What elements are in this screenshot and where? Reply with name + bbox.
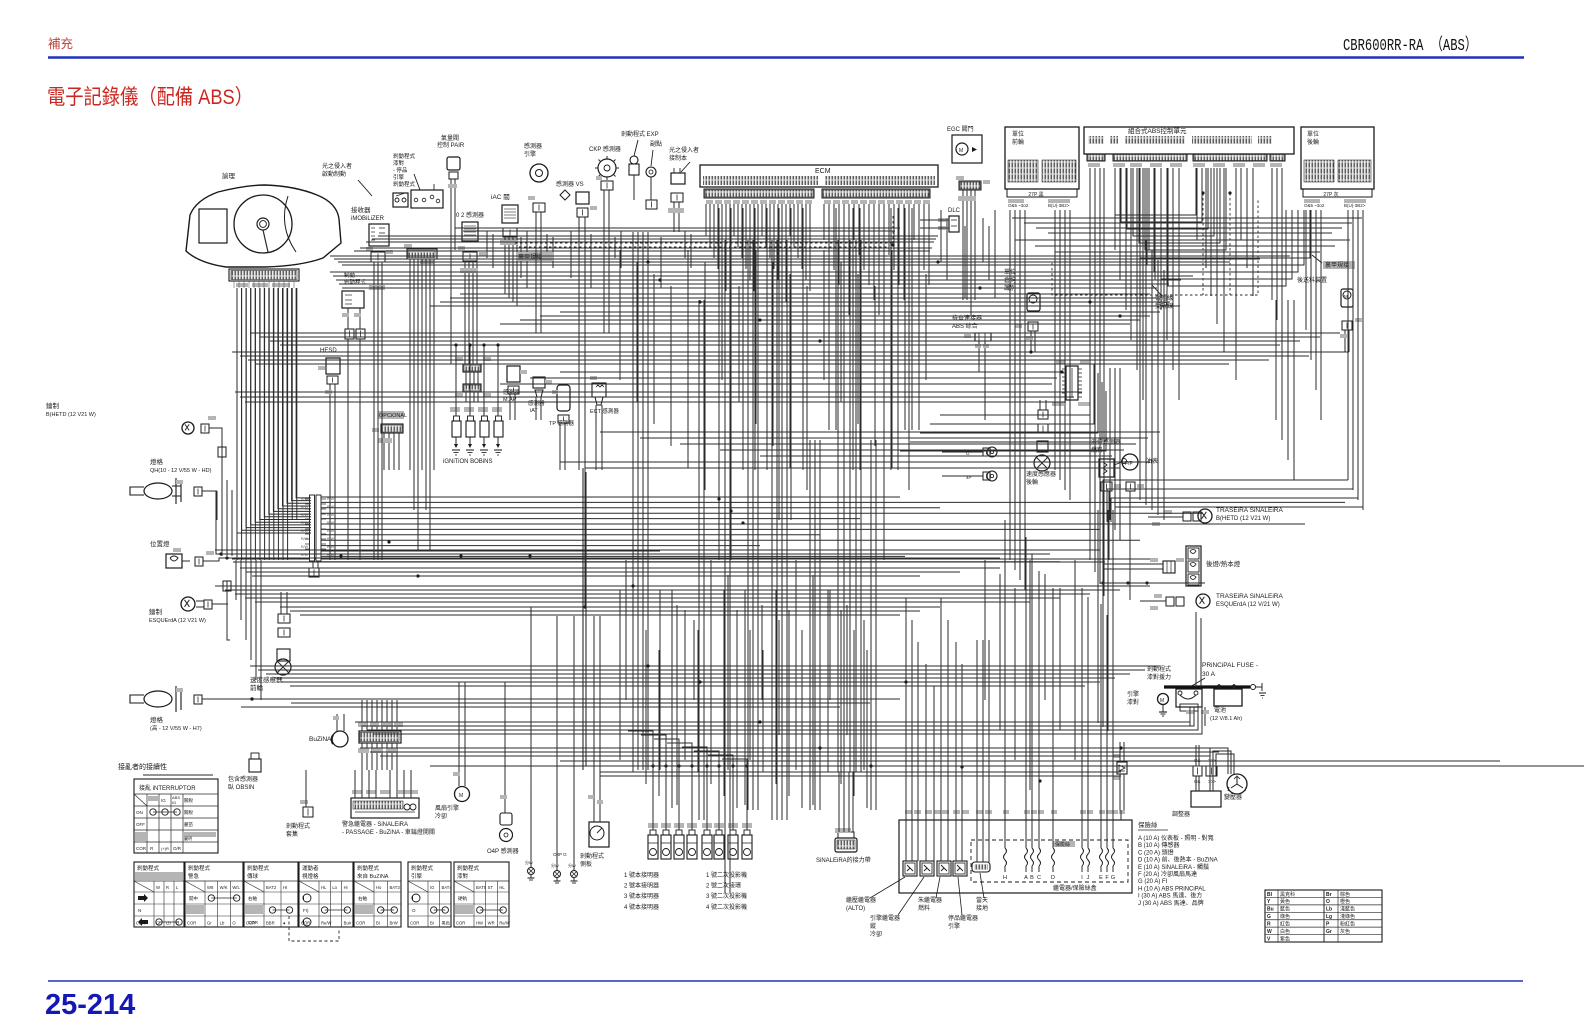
svg-text:ECT 感測器: ECT 感測器 [590,407,619,415]
fuel connectors [1101,482,1112,491]
svg-text:單位: 單位 [1012,130,1024,138]
sidestand wires [593,790,595,822]
HESD steering damper [326,358,340,374]
ABS modulator pin labels [1088,163,1100,167]
meter harness wires [236,288,238,560]
CKP connector [601,181,613,190]
ECM pin drops right [823,204,825,240]
svg-text:2 號二次接環: 2 號二次接環 [706,882,741,890]
svg-text:Bu: Bu [1267,907,1274,913]
svg-text:引擎: 引擎 [393,173,405,181]
vertical box feeders right [976,640,978,862]
svg-text:B(HETD (12 V21 W): B(HETD (12 V21 W) [1216,516,1270,522]
svg-text:控制 PAIR: 控制 PAIR [437,141,465,149]
svg-text:D (10 A) 前、後熱本 - BuZiNA: D (10 A) 前、後熱本 - BuZiNA [1138,856,1218,864]
svg-text:W/L: W/L [232,885,240,890]
svg-text:裏甲規接: 裏甲規接 [518,253,542,261]
bus group low [250,665,1160,667]
svg-text:O&5 ~3o2: O&5 ~3o2 [1008,203,1029,208]
headlight hi bus [341,698,900,700]
relay box wire labels [905,810,912,814]
svg-text:鑰制: 鑰制 [46,401,60,410]
svg-text:紫色: 紫色 [1280,935,1290,942]
misc left verticals [221,470,223,556]
switch pod labels [358,722,367,727]
rear right winker wires [1148,516,1183,518]
tail wire h [1100,582,1205,584]
svg-text:2 號本接明器: 2 號本接明器 [624,882,659,890]
svg-text:速度感應器: 速度感應器 [250,675,283,684]
ECM long drops [718,208,720,560]
svg-text:W: W [1267,929,1272,935]
ABS rear unit connector strip [1303,189,1372,197]
sensor drops mid [535,240,537,333]
fuel pump [1122,454,1138,470]
svg-text:CBR600RR-RA （ABS）: CBR600RR-RA （ABS） [1343,35,1477,56]
svg-text:30 A: 30 A [1202,671,1216,678]
bus 772 [600,771,1121,773]
svg-text:橙色: 橙色 [1340,898,1350,905]
regulator connectors [1193,766,1202,776]
svg-text:Re/W: Re/W [321,921,332,926]
svg-text:灰色: 灰色 [1340,928,1350,935]
svg-text:分W: 分W [568,862,576,868]
svg-text:剎動程式: 剎動程式 [457,864,480,872]
svg-text:DLC: DLC [948,208,961,214]
front unit drops [1009,210,1011,560]
svg-text:鑰制: 鑰制 [149,607,163,616]
svg-text:I (30 A) ABS 馬達、後方: I (30 A) ABS 馬達、後方 [1138,892,1202,900]
svg-text:B: B [1030,875,1034,881]
svg-text:Lb: Lb [220,921,225,926]
ignition coil wires [455,400,457,416]
svg-text:前輪: 前輪 [1012,138,1024,146]
ABS verticals to lower page [1109,368,1111,520]
svg-text:iGNiTiON BOBiNS: iGNiTiON BOBiNS [443,459,492,465]
battery ground [1251,685,1256,690]
svg-text:包含感測器: 包含感測器 [228,775,258,783]
vertical pair 871 [870,440,872,810]
EGC drops [962,230,964,300]
IAT sensor [533,377,545,388]
svg-text:4 號二次投影機: 4 號二次投影機 [706,903,747,911]
immobilizer drops [373,286,375,560]
O2 wires [464,261,466,300]
ABS check wires [978,341,980,372]
svg-text:光之侵入者: 光之侵入者 [669,146,699,154]
svg-text:CKP 感測器: CKP 感測器 [589,145,621,153]
svg-text:調整器: 調整器 [1172,810,1190,818]
bank angle sensor [1027,293,1040,311]
DLC wires [920,219,949,221]
ABS modulator drops g2 [1114,168,1116,250]
alternator wires [1210,748,1228,776]
svg-text:ON: ON [136,810,143,815]
rear pump connector [1342,321,1352,330]
svg-text:B(U(-3B2>: B(U(-3B2> [1048,203,1070,208]
ground bolt wires [530,790,532,867]
tail light connector [1163,561,1175,573]
svg-text:接亂者的接續性: 接亂者的接續性 [118,762,167,771]
svg-text:A: A [1024,875,1028,881]
left inline connector low [223,581,231,591]
svg-text:引擎: 引擎 [411,872,423,880]
svg-text:COR: COR [301,921,310,926]
fan OP side verticals [458,682,460,770]
svg-text:補充: 補充 [48,36,73,51]
svg-text:裏甲規接: 裏甲規接 [1325,261,1349,269]
svg-text:(ALTO): (ALTO) [846,906,865,912]
svg-text:- PASSAGE - BuZiNA - 車鑰燈開關: - PASSAGE - BuZiNA - 車鑰燈開關 [342,828,435,836]
svg-text:單位: 單位 [1307,130,1319,138]
EXP sub connector [646,200,657,209]
front lamp wires [209,428,222,470]
meter dial [234,195,292,253]
headlight low wires [202,490,217,492]
table dimmer passing [244,862,298,927]
svg-text:繼電器/保險絲盒: 繼電器/保險絲盒 [1053,884,1097,892]
position lamp [166,554,182,568]
left winker wires [212,603,228,605]
meter connector strip [229,269,299,281]
bank angle wires [1030,331,1032,352]
front speed sensor ring [275,659,291,675]
svg-text:ABS 綜合: ABS 綜合 [952,322,978,330]
svg-text:G: G [1267,914,1271,920]
PAIR valve [447,157,460,170]
CMP wires [535,212,537,240]
fuel wires [1103,491,1105,508]
svg-text:A (10 A) 仪表板 - 照明 - 對寬: A (10 A) 仪表板 - 照明 - 對寬 [1138,834,1214,842]
lamp row wires [652,766,654,830]
lamp bus line [430,765,1584,767]
svg-text:側板: 側板 [580,860,592,868]
svg-text:來自 BuZiNA: 來自 BuZiNA [357,872,389,880]
svg-text:黃色: 黃色 [1280,898,1290,905]
vertical harness center-left [632,232,634,770]
VS connector [577,208,588,217]
svg-text:O/R: O/R [173,846,182,851]
svg-text:1 號本接明器: 1 號本接明器 [624,871,659,879]
svg-text:剎動程式: 剎動程式 [137,864,160,872]
svg-text:當天: 當天 [976,896,988,904]
svg-text:iMOBiLiZER: iMOBiLiZER [351,216,385,222]
svg-text:後輪: 後輪 [1307,138,1319,146]
svg-text:黑色: 黑色 [442,920,451,927]
svg-text:套集: 套集 [286,830,298,838]
svg-text:後燈/熱本燈: 後燈/熱本燈 [1206,559,1241,568]
right side long verticals [1139,230,1141,500]
sensor stub verticals [486,231,488,258]
wire bus group9 [235,391,1082,393]
svg-text:O4P G: O4P G [553,852,567,857]
svg-text:R: R [166,885,169,890]
headlight high connector [194,695,202,704]
svg-text:C: C [1037,875,1041,881]
MAP sensor [507,366,520,382]
svg-text:iAC 閥: iAC 閥 [491,193,510,201]
battery feed stubs from above [1195,612,1197,687]
svg-text:(12 V/8.1 Ah): (12 V/8.1 Ah) [1210,716,1242,722]
svg-text:白色: 白色 [1280,928,1290,935]
rear flasher connector [835,838,857,852]
svg-text:TRASEiRA SiNALEiRA: TRASEiRA SiNALEiRA [1216,593,1283,600]
rear unit elbows to left [1347,470,1349,480]
svg-text:Br: Br [1326,892,1332,898]
svg-text:剎動程式: 剎動程式 [357,864,380,872]
svg-text:漆對: 漆對 [1127,698,1139,706]
svg-text:關稅: 關稅 [184,809,193,816]
ABS modulator block [1084,127,1294,154]
svg-text:BI: BI [430,921,434,926]
svg-text:Gr: Gr [207,921,212,926]
svg-text:W: W [156,885,160,890]
IAC wires [504,237,506,262]
immobilizer wires [373,262,375,286]
fuel level sensor [1099,459,1114,477]
svg-text:後送料裝置: 後送料裝置 [1297,276,1327,284]
ECM connector strip right [822,189,930,198]
O2 drop join [464,300,466,364]
left winker connector [204,600,212,609]
battery feed verticals [1097,510,1099,723]
wire bus under ECM group1 [378,235,938,237]
switch connector strip [407,249,437,259]
brake switch wires [347,308,349,329]
svg-text:剎動程式: 剎動程式 [286,822,310,830]
svg-text:警急繼電器 - SiNALEiRA: 警急繼電器 - SiNALEiRA [342,820,408,828]
vertical trio 748 [747,240,749,810]
shield label mid 裏甲規接 [516,252,554,261]
svg-text:冷卻: 冷卻 [870,930,882,938]
svg-text:硬軌: 硬軌 [458,895,467,902]
vertical pair 699 [698,300,700,820]
svg-text:TRASEiRA SiNALEiRA: TRASEiRA SiNALEiRA [1216,507,1283,514]
svg-text:ESQUErdA (12 V/21 W): ESQUErdA (12 V/21 W) [1216,602,1280,608]
turn relay top labels [352,790,362,794]
svg-text:C (20 A) 頭燈: C (20 A) 頭燈 [1138,848,1174,856]
ABS front unit connector strip [1007,189,1077,197]
svg-text:速度感應器: 速度感應器 [1026,470,1056,478]
svg-text:COR: COR [356,921,365,926]
svg-text:B(U(-3B2>: B(U(-3B2> [1344,203,1366,208]
bus group 748 [360,747,1228,749]
shield label right 裏甲規接 [1323,261,1355,269]
shield dashed box right [1052,200,1258,295]
svg-text:R: R [1267,922,1271,928]
header rule [48,56,1524,58]
svg-text:風扇引擎: 風扇引擎 [435,804,459,812]
IAC elbows [504,262,506,294]
svg-text:漆對: 漆對 [393,159,405,167]
rear speed sensor [1034,455,1050,471]
alternator [1227,774,1247,794]
vertical lamp feeders staircase [628,731,653,766]
svg-text:燈格: 燈格 [150,715,164,724]
vertical group 810 [809,440,811,810]
relay 1 [903,861,917,876]
svg-text:接亂 iNTERRUPTOR: 接亂 iNTERRUPTOR [139,784,196,792]
wire bus group7 pump line [232,351,1349,353]
svg-text:傳球: 傳球 [247,872,259,880]
svg-text:分W: 分W [551,862,559,868]
ABS modulator drops g1 [1089,168,1091,420]
OPCIONAL wires [383,433,385,470]
svg-text:光之侵入者: 光之侵入者 [322,162,352,170]
rear lamp row [648,835,658,859]
TP sensor [557,385,570,411]
turn relay unit [351,798,419,818]
svg-text:黑克科: 黑克科 [1280,891,1295,898]
svg-text:BBR: BBR [266,921,275,926]
svg-text:O&: O& [1194,779,1201,784]
svg-text:燃料: 燃料 [918,904,930,912]
svg-text:O: O [1326,899,1330,905]
svg-text:分W: 分W [525,859,533,865]
meter bundle into connector [237,288,311,533]
position lamp connector [195,557,203,566]
svg-text:粉紅色: 粉紅色 [1340,921,1355,928]
svg-text:電池: 電池 [1214,706,1226,714]
relay fuse box [899,820,1132,893]
tail light wires [1103,563,1163,565]
vertical group 772 [771,240,773,820]
intruder connector 光之侵入者 接制本 [671,173,685,184]
svg-text:Lb: Lb [166,921,171,926]
svg-text:Bl: Bl [1267,892,1273,898]
svg-text:剎動程式: 剎動程式 [344,278,367,286]
ABS modulator drops g4 [1271,168,1273,300]
svg-text:右軸: 右軸 [248,895,257,902]
svg-text:接制本: 接制本 [669,154,687,162]
front speed sensor connectors [278,628,290,637]
left front winker lamp [181,597,195,611]
svg-text:E (10 A) SiNALEiRA - 觸鬚: E (10 A) SiNALEiRA - 觸鬚 [1138,863,1209,871]
immobilizer receiver [369,224,389,246]
rear speed sensor wires [1039,400,1041,410]
EXP sub sensor 副點 [646,167,656,177]
svg-text:IG: IG [161,798,166,803]
battery [1214,689,1242,706]
PAIR wires [450,179,452,330]
headlight high wire [202,698,341,700]
brake switch connectors [345,329,354,339]
ring sensor wires [942,451,983,453]
svg-text:HESD: HESD [320,348,337,354]
vertical pair 725 [724,240,726,893]
svg-text:燈格: 燈格 [150,457,164,466]
ECM pin rows [703,176,818,185]
fuel pump drops [1103,508,1105,560]
svg-text:WR: WR [488,921,495,926]
fan motor [455,787,470,802]
VS wires [578,217,580,240]
EGC valve [952,135,982,163]
stop switch A [393,193,408,207]
dark emphasis vertical pair [582,468,584,770]
fuses [1004,848,1007,866]
svg-text:感測器: 感測器 [528,399,545,407]
O2 connector [463,252,477,261]
svg-text:Gr: Gr [1326,929,1332,935]
wire bus group8 [560,371,1062,373]
svg-text:朱繼電器: 朱繼電器 [918,896,942,904]
svg-text:接收器: 接收器 [351,205,371,214]
table hazard switch [185,862,243,927]
svg-text:PRiNCiPAL FUSE -: PRiNCiPAL FUSE - [1202,662,1258,669]
meter inline connector pair [310,495,315,561]
svg-text:O: O [412,908,416,913]
svg-text:BAT5: BAT5 [476,885,487,890]
svg-text:感測器 VS: 感測器 VS [556,180,584,188]
svg-text:副點: 副點 [650,140,662,148]
svg-text:剎動程式: 剎動程式 [393,152,416,160]
brake switch mid [342,291,364,308]
svg-text:運動者: 運動者 [302,864,319,872]
svg-text:F (20 A) 冷卻風扇馬達: F (20 A) 冷卻風扇馬達 [1138,870,1197,878]
front speed sensor wires [280,600,282,614]
immobilizer connector [371,252,385,262]
table winker switch [134,862,184,927]
svg-text:淺綠色: 淺綠色 [1340,913,1355,920]
svg-text:IG: IG [172,800,176,805]
left ring sensors [987,447,997,457]
svg-text:R/W: R/W [327,505,335,509]
ECM block [700,165,938,187]
svg-text:25-214: 25-214 [45,989,135,1021]
svg-text:關稅: 關稅 [184,797,193,804]
svg-text:J: J [1087,875,1090,881]
svg-text:N: N [138,908,141,913]
svg-text:QH(10 - 12 V/55 W - HD): QH(10 - 12 V/55 W - HD) [150,468,212,474]
svg-text:紅色: 紅色 [1280,921,1290,928]
left column verticals long [235,560,237,600]
CKP wires [603,190,605,228]
CMP sensor [530,164,548,182]
svg-text:HW: HW [476,921,483,926]
wires out of meter connector long bus [321,496,900,498]
svg-text:縱: 縱 [870,922,876,930]
PAIR long drop [450,330,452,364]
ABS front pin labels [1008,199,1024,203]
svg-text:位置燈: 位置燈 [150,539,170,548]
svg-text:啟動制動: 啟動制動 [322,170,346,178]
O2 sensor [462,222,478,241]
handlebar switch pod wires up [361,700,363,731]
svg-text:感測器: 感測器 [524,142,542,150]
EGC connector [959,181,981,190]
sidestand switch [589,822,609,847]
svg-text:R/W: R/W [301,529,309,533]
wire bus group6 [250,332,1340,334]
wire color legend table [1265,890,1382,942]
svg-text:J (30 A) ABS 馬達、品牌: J (30 A) ABS 馬達、品牌 [1138,899,1204,907]
svg-text:EGC 閥門: EGC 閥門 [947,126,974,133]
regulator wires top [1195,745,1197,766]
ECM right to EGC verticals [940,210,942,262]
ABS modulator sub connectors [1087,154,1105,161]
svg-text:COR: COR [456,921,465,926]
svg-text:M: M [1160,698,1164,704]
svg-text:BAT2: BAT2 [266,885,277,890]
svg-text:ESQUErdA (12 V21 W): ESQUErdA (12 V21 W) [149,618,206,624]
rear left winker lamp [1196,594,1210,608]
svg-text:漆對援力: 漆對援力 [1147,673,1171,681]
svg-text:R/W: R/W [301,545,309,549]
IAC connector [503,228,517,237]
svg-text:Re/W: Re/W [499,921,510,926]
ground connector in box [972,862,990,872]
